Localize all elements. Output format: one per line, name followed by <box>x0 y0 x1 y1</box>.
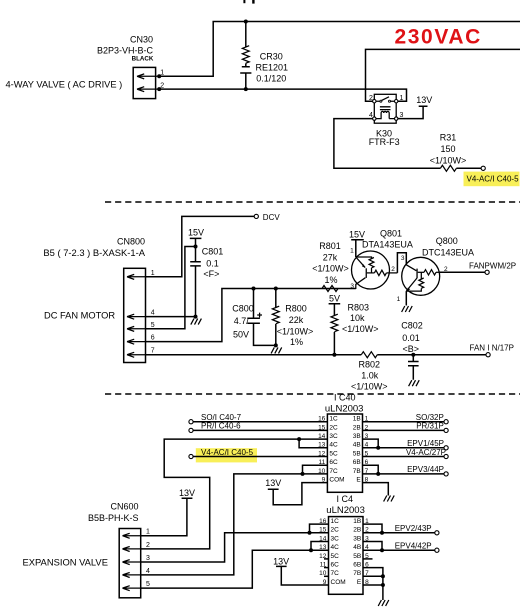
svg-text:uLN2003: uLN2003 <box>326 505 365 516</box>
pin 5 arrow CN800 <box>127 322 155 332</box>
terminal FAN I N/17P <box>470 343 514 356</box>
svg-text:1: 1 <box>350 248 354 255</box>
svg-text:7C: 7C <box>331 570 340 577</box>
svg-text:SO/32P: SO/32P <box>416 413 444 422</box>
wire 7C to 6C loop <box>303 465 328 474</box>
svg-text:CN30: CN30 <box>130 34 153 44</box>
node IC4 4C tie <box>309 548 313 552</box>
capacitor C801 <box>190 247 223 317</box>
wire IC40 6B to 7B loop <box>363 465 379 474</box>
wire IC40 2B to PR/31P <box>363 422 449 433</box>
svg-text:2: 2 <box>369 95 373 102</box>
stub IC4 5B <box>363 558 373 560</box>
supply 5V R803 <box>329 294 341 316</box>
supply 15V C801 <box>188 227 204 246</box>
svg-text:13V: 13V <box>265 478 281 488</box>
wire IC4 3B to 4B loop <box>363 542 382 551</box>
IC I C4 uLN2003 <box>326 494 365 594</box>
node IC4 4B tie <box>380 548 384 552</box>
svg-text:RE1201: RE1201 <box>256 63 289 73</box>
wire 3C to 4C loop <box>299 439 327 448</box>
IC40 pin labels left <box>318 416 345 484</box>
svg-text:R801: R801 <box>319 241 341 251</box>
svg-text:0.1: 0.1 <box>206 259 219 269</box>
pin 4 arrow CN800 <box>127 310 155 320</box>
svg-text:SO/I C40-7: SO/I C40-7 <box>201 413 242 422</box>
svg-text:13V: 13V <box>179 488 195 498</box>
svg-text:E: E <box>356 477 361 484</box>
svg-text:4C: 4C <box>329 442 338 449</box>
node IC4 2C tie <box>308 531 312 535</box>
svg-text:EXPANSION VALVE: EXPANSION VALVE <box>23 556 108 567</box>
ground R800 <box>271 347 282 353</box>
svg-text:50V: 50V <box>233 330 249 340</box>
node C800 top <box>252 287 256 291</box>
svg-text:7B: 7B <box>353 570 361 577</box>
svg-text:1: 1 <box>146 529 150 536</box>
svg-text:1%: 1% <box>324 275 337 285</box>
svg-text:B5 ( 7-2.3 ) B-XASK-1-A: B5 ( 7-2.3 ) B-XASK-1-A <box>43 247 145 258</box>
node IC4 2B tie <box>380 531 384 535</box>
svg-text:7B: 7B <box>353 468 361 475</box>
relay K30 <box>369 94 404 147</box>
svg-text:<1/10W>: <1/10W> <box>312 264 349 274</box>
svg-text:<B>: <B> <box>403 344 420 354</box>
svg-text:BLACK: BLACK <box>132 56 154 63</box>
IC4 pin labels right <box>353 518 369 586</box>
node 15V junction <box>194 245 198 249</box>
ground C802 <box>409 380 420 386</box>
wire CN600 pin2 to IC40 3C <box>141 439 328 549</box>
node IC40 7B tie <box>376 472 380 476</box>
supply 13V relay <box>398 95 432 119</box>
svg-text:I C4: I C4 <box>337 494 354 504</box>
terminal V4-AC/I C40-5 top <box>464 166 520 186</box>
svg-text:EPV3/44P: EPV3/44P <box>407 465 444 474</box>
svg-text:PR/I C40-6: PR/I C40-6 <box>201 422 241 431</box>
node IC4 7B tie <box>381 574 385 578</box>
node IC4 E tie <box>381 583 385 587</box>
svg-text:27k: 27k <box>323 252 338 262</box>
svg-text:1B: 1B <box>353 518 361 525</box>
svg-text:7C: 7C <box>329 468 338 475</box>
svg-text:5B: 5B <box>353 450 361 457</box>
wire IC40 4B to EPV1/45P <box>363 439 449 450</box>
svg-text:1: 1 <box>400 95 404 102</box>
node CR30 bottom <box>244 87 248 91</box>
ground C801 <box>191 319 202 325</box>
wire Q800 pin2 to FANPWM <box>440 271 485 273</box>
svg-text:CN800: CN800 <box>117 237 145 247</box>
IC40 pin labels right <box>353 416 369 484</box>
terminal FANPWM/2P <box>469 262 516 275</box>
svg-text:CR30: CR30 <box>260 52 283 62</box>
svg-text:7: 7 <box>151 348 155 355</box>
svg-text:2: 2 <box>391 266 395 273</box>
pin 4 arrow CN600 <box>123 568 151 578</box>
svg-text:1: 1 <box>151 270 155 277</box>
stub IC4 7C <box>324 575 329 577</box>
svg-text:Q801: Q801 <box>380 228 402 238</box>
wire IC4 1C loop <box>310 524 329 533</box>
svg-text:2B: 2B <box>353 424 361 431</box>
svg-text:4.7/: 4.7/ <box>234 316 250 326</box>
resistor R801 <box>312 241 349 291</box>
capacitor C800 <box>232 289 275 346</box>
pin 7 arrow CN800 <box>127 348 155 358</box>
svg-text:15: 15 <box>319 527 327 534</box>
transistor Q800 <box>397 236 474 306</box>
svg-text:2: 2 <box>160 82 164 89</box>
pin 5 arrow CN600 <box>123 581 151 591</box>
pin 1 arrow CN30 <box>137 70 164 79</box>
svg-text:5C: 5C <box>329 450 338 457</box>
svg-text:4B: 4B <box>353 544 361 551</box>
svg-text:2C: 2C <box>329 424 338 431</box>
wire IC4 4B to EPV4/42P <box>363 542 439 553</box>
svg-text:6C: 6C <box>329 459 338 466</box>
wire 230VAC rail to relay pin2 <box>366 49 520 101</box>
svg-text:5: 5 <box>151 322 155 329</box>
resistor R800 <box>272 289 313 347</box>
svg-text:COM: COM <box>331 579 346 586</box>
supply 13V IC4 COM <box>273 557 328 585</box>
resistor R802 <box>351 352 413 392</box>
svg-text:3B: 3B <box>353 433 361 440</box>
svg-text:13V: 13V <box>273 557 289 567</box>
svg-text:2: 2 <box>146 542 150 549</box>
resistor R31 <box>430 133 481 172</box>
wire IC40 3B to 4B loop <box>363 439 379 448</box>
stub IC4 6C <box>324 567 329 569</box>
ground Q800 <box>402 306 413 312</box>
supply 13V CN600 pin1 <box>141 488 195 536</box>
pin 6 arrow CN800 <box>127 335 155 345</box>
terminal V4-AC/I C40-5 bottom <box>189 448 328 463</box>
svg-text:<1/10W>: <1/10W> <box>430 156 467 166</box>
svg-text:V4-AC/27P: V4-AC/27P <box>406 448 446 457</box>
resistor R803 <box>331 302 379 354</box>
ground IC4 <box>378 600 389 606</box>
wire CN600 pin5 to IC4 4C <box>141 550 329 588</box>
svg-text:4B: 4B <box>353 442 361 449</box>
svg-text:CN600: CN600 <box>110 501 138 511</box>
svg-text:230VAC: 230VAC <box>395 26 482 49</box>
IC I C40 uLN2003 <box>325 393 364 493</box>
svg-text:DTC143EUA: DTC143EUA <box>422 247 474 257</box>
node IC40 3C/4C tie <box>297 437 301 441</box>
svg-text:2B: 2B <box>353 527 361 534</box>
pin 2 arrow CN30 <box>137 82 164 91</box>
svg-text:C802: C802 <box>401 321 423 331</box>
cut-off text marks top edge <box>243 0 254 4</box>
svg-text:1: 1 <box>160 70 164 77</box>
wire CN800 pin7 FAN IN rail <box>146 354 362 356</box>
ground IC40 E <box>384 496 395 502</box>
wire to FAN IN terminal <box>413 354 486 356</box>
svg-text:DC FAN MOTOR: DC FAN MOTOR <box>44 310 115 320</box>
svg-text:FAN I N/17P: FAN I N/17P <box>470 343 514 352</box>
node R800 bottom <box>274 343 278 347</box>
node C801 bottom <box>194 315 198 319</box>
svg-text:5V: 5V <box>329 294 340 304</box>
svg-text:1.0k: 1.0k <box>361 371 379 381</box>
wire DCV to CN800 pin1 <box>146 216 255 276</box>
pin 3 arrow CN600 <box>123 555 151 565</box>
node R803 bottom <box>332 353 336 357</box>
svg-text:<1/10W>: <1/10W> <box>342 324 379 334</box>
svg-text:10k: 10k <box>350 313 365 323</box>
terminal DCV <box>254 213 280 222</box>
svg-text:COM: COM <box>329 477 344 484</box>
svg-text:R803: R803 <box>348 302 370 312</box>
capacitor C802 <box>401 321 423 380</box>
wire IC40 5B to V4-AC/27P <box>363 448 449 459</box>
node C802 top <box>411 353 415 357</box>
svg-text:6: 6 <box>151 335 155 342</box>
resistor-capacitor CR30 <box>240 22 288 90</box>
svg-text:EPV4/42P: EPV4/42P <box>395 542 432 551</box>
svg-text:5: 5 <box>146 581 150 588</box>
svg-text:4-WAY VALVE ( AC DRIVE ): 4-WAY VALVE ( AC DRIVE ) <box>6 79 123 89</box>
svg-text:<F>: <F> <box>203 269 219 279</box>
svg-text:3: 3 <box>350 283 354 290</box>
svg-text:I C40: I C40 <box>334 393 356 403</box>
svg-text:V4-AC/I C40-5: V4-AC/I C40-5 <box>467 174 520 183</box>
svg-text:4: 4 <box>146 568 150 575</box>
svg-text:1C: 1C <box>329 416 338 423</box>
svg-text:1%: 1% <box>290 337 303 347</box>
wire IC4 6B 7B E to ground <box>363 568 383 600</box>
svg-text:2C: 2C <box>331 527 340 534</box>
svg-text:R802: R802 <box>359 360 381 370</box>
wire CN30 pin1 to top rail <box>159 22 520 77</box>
svg-text:FANPWM/2P: FANPWM/2P <box>469 262 516 271</box>
svg-text:EPV1/45P: EPV1/45P <box>407 439 444 448</box>
svg-text:3: 3 <box>401 255 405 262</box>
svg-text:5B: 5B <box>353 553 361 560</box>
svg-text:V4-AC/I C40-5: V4-AC/I C40-5 <box>201 448 254 457</box>
wire IC40 7B to EPV3/44P <box>363 465 449 476</box>
svg-text:C800: C800 <box>232 303 254 313</box>
svg-text:1C: 1C <box>331 518 340 525</box>
wire 15V node to CN800 pin5 <box>146 247 196 329</box>
svg-text:DCV: DCV <box>263 213 281 222</box>
svg-text:3C: 3C <box>329 433 338 440</box>
svg-text:15V: 15V <box>188 227 204 237</box>
svg-text:B2P3-VH-B-C: B2P3-VH-B-C <box>97 46 154 56</box>
svg-text:EPV2/43P: EPV2/43P <box>395 524 432 533</box>
connector CN600 <box>23 501 141 598</box>
connector CN800 <box>43 237 145 363</box>
wire IC4 3C loop <box>311 542 329 551</box>
connector CN30 <box>97 34 156 98</box>
wire IC40 E to ground <box>363 483 389 496</box>
svg-text:FTR-F3: FTR-F3 <box>369 137 400 147</box>
wire CN600 pin4 to IC40 7C <box>141 474 328 575</box>
svg-text:<1/10W>: <1/10W> <box>351 381 388 391</box>
node R800 top <box>274 287 278 291</box>
dashed separator middle <box>105 393 520 395</box>
supply 13V IC40 COM <box>265 478 327 505</box>
wire Q801 pin2 to Q800 pin3 <box>397 253 406 273</box>
stub IC4 5C <box>324 558 329 560</box>
terminal PR/I C40-6 <box>189 422 328 433</box>
svg-text:R31: R31 <box>440 133 457 143</box>
svg-text:1: 1 <box>397 296 401 303</box>
svg-text:DTA143EUA: DTA143EUA <box>362 239 413 249</box>
svg-text:22k: 22k <box>289 315 304 325</box>
wire IC4 1B to 2B loop <box>363 524 382 533</box>
pin 1 arrow CN800 <box>127 270 155 280</box>
svg-text:<1/10W>: <1/10W> <box>277 326 314 336</box>
svg-text:3C: 3C <box>331 535 340 542</box>
svg-text:6B: 6B <box>353 459 361 466</box>
pin 1 arrow CN600 <box>123 529 151 539</box>
wire CN800 pin6 to R800 rail <box>146 289 356 342</box>
node IC40 7C/6C tie <box>301 472 305 476</box>
transistor Q801 <box>349 228 413 290</box>
svg-text:4: 4 <box>151 310 155 317</box>
dashed separator top <box>105 201 520 203</box>
wire CN800 pin4 to C801 ground node <box>146 316 196 318</box>
wire relay pin4 to R31 <box>334 119 441 169</box>
pin 2 arrow CN600 <box>123 542 151 552</box>
svg-text:5C: 5C <box>331 553 340 560</box>
svg-text:E: E <box>357 579 362 586</box>
svg-text:C801: C801 <box>202 247 224 257</box>
svg-text:0.01: 0.01 <box>402 333 420 343</box>
svg-text:1B: 1B <box>353 416 361 423</box>
node IC40 4B tie <box>376 446 380 450</box>
svg-text:3: 3 <box>146 555 150 562</box>
node CR30 top <box>244 20 248 24</box>
svg-text:6C: 6C <box>331 562 340 569</box>
svg-text:B5B-PH-K-S: B5B-PH-K-S <box>88 513 139 523</box>
svg-text:PR/31P: PR/31P <box>416 422 444 431</box>
IC4 pin labels left <box>319 518 346 586</box>
svg-text:6B: 6B <box>353 562 361 569</box>
wire CN30 pin2 to relay pin1 <box>159 89 406 101</box>
wire IC4 2B to EPV2/43P <box>363 524 439 535</box>
svg-text:0.1/120: 0.1/120 <box>256 73 286 83</box>
svg-text:13V: 13V <box>416 95 432 105</box>
svg-text:4C: 4C <box>331 544 340 551</box>
svg-text:uLN2003: uLN2003 <box>325 404 364 415</box>
svg-text:150: 150 <box>440 144 455 154</box>
wire CN600 pin3 to IC4 2C <box>141 533 329 562</box>
svg-text:15V: 15V <box>349 230 365 240</box>
wire IC40 1B to SO/32P <box>363 413 449 424</box>
svg-text:3B: 3B <box>353 535 361 542</box>
svg-text:R800: R800 <box>285 303 307 313</box>
svg-text:Q800: Q800 <box>436 236 458 246</box>
terminal SO/I C40-7 <box>189 413 328 424</box>
